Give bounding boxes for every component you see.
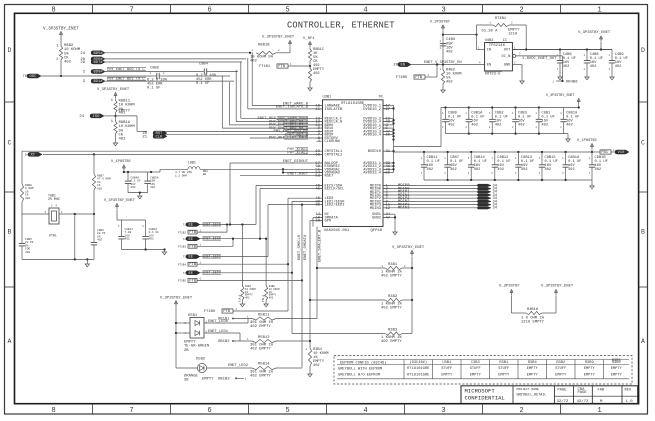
svg-text:402: 402 (150, 186, 155, 189)
capacitor C8B1A (468, 108, 470, 120)
svg-text:V_3P3STBY_ENET: V_3P3STBY_ENET (104, 199, 136, 203)
svg-text:EN: EN (487, 64, 491, 68)
svg-text:ENET_LED1: ENET_LED1 (208, 330, 229, 334)
wire (197, 245, 233, 247)
wire (200, 238, 266, 240)
wire EEDOUT riser (229, 163, 231, 225)
power arrow (288, 41, 291, 44)
svg-text:STUFF: STUFF (441, 367, 452, 371)
ground below R8B1D (308, 88, 312, 91)
svg-text:402: 402 (446, 51, 453, 55)
wire VDDANA feed from 1P8 rail (151, 171, 160, 173)
regulator U4B2 body (485, 43, 513, 71)
power arrow (510, 290, 513, 293)
svg-text:FTB: FTB (189, 245, 197, 249)
wire ENET_LED0 (204, 322, 248, 324)
resistor R8B11 (114, 101, 117, 113)
wire (197, 231, 227, 233)
svg-text:V_1P8STBY: V_1P8STBY (111, 160, 132, 164)
wire R3B2 net (310, 299, 385, 301)
IC U3B1 left pin names and numbers (315, 105, 345, 224)
svg-text:IN: IN (487, 49, 491, 53)
svg-text:FTB: FTB (189, 279, 197, 283)
wires from left components to IC U3B1 left pins (161, 106, 323, 221)
svg-text:DC: DC (379, 96, 384, 100)
wire riser EEDI to IC (267, 205, 269, 257)
svg-text:EE: EE (189, 272, 194, 276)
svg-text:402 EMPTY: 402 EMPTY (250, 375, 271, 379)
svg-text:PHY ENET BD1 TX C: PHY ENET BD1 TX C (107, 78, 145, 82)
svg-text:FAB: FAB (598, 389, 605, 393)
wire (276, 52, 290, 54)
LED D5B2 body (197, 363, 206, 372)
svg-text:402: 402 (97, 239, 102, 242)
wire riser RT4B1 to output rail (525, 25, 527, 50)
svg-text:R5B14: R5B14 (258, 363, 270, 367)
ground symbol below R8B1A (113, 143, 117, 146)
wire power pin stubs (383, 118, 394, 172)
wire (309, 61, 311, 68)
resistor R4B2 (442, 65, 444, 71)
zone column ticks top (92, 5, 94, 14)
svg-text:R3B5: R3B5 (612, 359, 621, 363)
wire (105, 61, 242, 63)
node junctions LED supply (175, 322, 177, 324)
node junction XTAL2 to series resistor (93, 153, 95, 155)
svg-text:ENET_SMDCLK: ENET_SMDCLK (298, 234, 302, 260)
wire (288, 65, 310, 67)
svg-text:402: 402 (250, 60, 258, 64)
svg-text:01.30 A: 01.30 A (481, 29, 498, 33)
svg-text:402: 402 (448, 124, 455, 128)
MDI net labels (398, 184, 498, 211)
svg-text:A: A (8, 338, 12, 345)
capacitor C8B13 (517, 152, 519, 165)
svg-text:FTB: FTB (415, 76, 423, 80)
svg-text:FT1B3: FT1B3 (178, 246, 186, 249)
svg-text:C: C (641, 140, 645, 147)
resistor R8B7 series on XTAL2 (92, 174, 95, 190)
svg-text:402 EMPTY: 402 EMPTY (381, 275, 402, 279)
capacitor C8B5A (147, 172, 149, 181)
wire LED supply vertical (175, 306, 177, 368)
svg-text:2: 2 (56, 58, 58, 62)
svg-text:CLKRUN#: CLKRUN# (325, 140, 341, 144)
svg-text:402: 402 (119, 112, 127, 116)
svg-text:BD7#: BD7# (94, 61, 104, 65)
svg-text:6: 6 (207, 407, 211, 415)
svg-text:C: C (8, 140, 12, 147)
svg-text:34: 34 (493, 207, 498, 211)
svg-text:DB1B1: DB1B1 (218, 318, 230, 322)
wire (115, 113, 117, 122)
wire ENET_LED1 (204, 332, 240, 334)
wire bottom rail (122, 249, 165, 251)
svg-text:402: 402 (25, 197, 30, 200)
svg-text:2B: 2B (184, 379, 189, 383)
svg-text:AVDD10_4: AVDD10_4 (363, 134, 381, 138)
title block outline (461, 386, 638, 404)
svg-text:402: 402 (521, 168, 528, 172)
svg-text:C3B3: C3B3 (471, 361, 480, 365)
svg-text:STUFF: STUFF (470, 367, 481, 371)
svg-text:PHY_REF_CLK1_PADS: PHY_REF_CLK1_PADS (269, 137, 309, 141)
svg-text:(93C46#): (93C46#) (409, 360, 427, 365)
resistor R8B1B (256, 51, 276, 54)
svg-text:21: 21 (142, 135, 147, 139)
wire bottom rail of 1P8 caps (128, 192, 148, 194)
wire XTAL2 right vertical to cap (93, 214, 95, 228)
svg-text:402: 402 (545, 168, 552, 172)
node junctions on OUT rail (525, 48, 527, 50)
wire (60, 60, 62, 76)
node junction (309, 65, 311, 67)
svg-text:ENET_EEDOUT: ENET_EEDOUT (283, 160, 309, 164)
svg-text:402 EMPTY: 402 EMPTY (250, 348, 271, 352)
power arrow (577, 99, 580, 102)
wire enable net (411, 64, 485, 66)
svg-text:402: 402 (313, 364, 320, 368)
ground bypass row1 (567, 134, 569, 139)
capacitor C8B16 (565, 152, 567, 165)
wire (233, 318, 252, 320)
svg-text:ENET_SMDATA: ENET_SMDATA (304, 234, 308, 260)
ground (139, 193, 141, 196)
wire (289, 47, 291, 53)
svg-text:EE: EE (189, 224, 194, 228)
title block dividers (512, 386, 514, 404)
svg-text:1210 EMPTY: 1210 EMPTY (521, 320, 545, 324)
capacitor C8B12 (494, 152, 496, 165)
svg-text:EECLK/SCL: EECLK/SCL (325, 187, 345, 192)
bypass row1 junction dots (444, 106, 540, 108)
svg-text:CONFIDENTIAL: CONFIDENTIAL (465, 394, 505, 401)
svg-text:L8B1: L8B1 (188, 161, 196, 165)
svg-text:FT1B4: FT1B4 (178, 263, 186, 266)
svg-text:38: 38 (315, 204, 320, 208)
svg-text:FT4B0: FT4B0 (396, 76, 407, 80)
svg-text:B: B (641, 229, 645, 236)
svg-text:402: 402 (471, 124, 478, 128)
svg-text:B: B (8, 229, 12, 236)
capacitor C8B14 (470, 152, 472, 165)
svg-text:R8B1B: R8B1B (258, 44, 270, 48)
wire BD2 bus horizontal (61, 75, 152, 77)
capacitor C8B6 (93, 228, 95, 243)
svg-text:1: 1 (597, 7, 601, 15)
wire PHY_XTAL2 long horizontal (43, 153, 323, 155)
svg-text:PAGE: PAGE (558, 389, 568, 393)
svg-text:EMPTY: EMPTY (202, 378, 214, 382)
wire (309, 366, 311, 374)
wire (116, 210, 118, 221)
svg-text:12: 12 (386, 207, 391, 211)
svg-text:15: 15 (315, 108, 320, 112)
capacitor C8B4A (127, 172, 129, 181)
wire (276, 367, 302, 369)
svg-text:BD1#: BD1# (94, 80, 104, 84)
svg-text:24: 24 (80, 52, 85, 56)
wire R4B16 right leg (555, 296, 557, 314)
wire crystal left lead (22, 213, 49, 215)
ferrite link FB8B1 and flag (592, 151, 600, 153)
svg-text:402: 402 (497, 168, 504, 172)
svg-text:DB1B2: DB1B2 (218, 340, 230, 344)
svg-text:MDIN3: MDIN3 (398, 207, 410, 211)
ground R4B2 (441, 90, 445, 93)
svg-text:DC_N: DC_N (502, 55, 511, 59)
capacitor C4B8 (586, 50, 588, 61)
wire vertical ENET net x288 (287, 198, 289, 311)
ground (559, 74, 561, 77)
node junction (74, 258, 76, 260)
svg-text:402: 402 (245, 297, 250, 300)
svg-text:R3B9: R3B9 (585, 361, 594, 365)
svg-text:8: 8 (51, 407, 55, 415)
capacitor C8B17 (121, 220, 123, 226)
LED D5B1 body (190, 318, 204, 339)
svg-text:V_3P3STBY_ENET: V_3P3STBY_ENET (392, 246, 425, 250)
ground (164, 250, 166, 253)
ground bypass row2 (591, 180, 593, 186)
wire box1 tie (226, 225, 228, 233)
svg-text:GND: GND (504, 64, 511, 68)
open-drain pin circle DC_N (513, 54, 516, 57)
svg-text:FT1B2: FT1B2 (178, 231, 186, 234)
svg-text:51B_A: 51B_A (262, 294, 265, 302)
svg-text:FT1B1: FT1B1 (259, 65, 271, 69)
wire bypass row2 top rail (394, 151, 593, 153)
svg-text:BVDD10: BVDD10 (368, 150, 381, 154)
svg-text:402 EMPTY: 402 EMPTY (250, 325, 271, 329)
svg-text:V_3P3STBY: V_3P3STBY (430, 21, 451, 25)
svg-text:28: 28 (25, 154, 29, 157)
svg-text:ENET_SMALERT_B: ENET_SMALERT_B (319, 229, 323, 262)
ground (586, 74, 588, 77)
power arrow V_3P3STBY (441, 25, 444, 28)
svg-text:EE: EE (189, 256, 194, 260)
svg-text:63: 63 (315, 153, 320, 157)
wire (105, 52, 250, 54)
power arrow (599, 36, 602, 39)
wire bypass row2 bottom rail (424, 179, 592, 181)
svg-text:BD5#: BD5# (94, 52, 104, 56)
svg-text:60: 60 (386, 134, 391, 138)
wire (176, 367, 197, 369)
wire (265, 300, 267, 304)
svg-text:402: 402 (474, 168, 481, 172)
node junction (442, 33, 444, 35)
svg-text:QFP48: QFP48 (371, 229, 383, 233)
wire pullup rail x412 (411, 257, 413, 334)
wire (200, 256, 268, 258)
svg-text:V10: V10 (618, 151, 626, 155)
wire (115, 99, 117, 101)
wire (105, 71, 200, 73)
svg-text:ENET_EESK: ENET_EESK (203, 238, 222, 242)
node junction crystal ground leg (74, 213, 76, 215)
svg-text:EMPTY: EMPTY (527, 367, 539, 371)
capacitor C4B6 (559, 50, 561, 61)
ground (240, 304, 244, 307)
svg-text:4: 4 (363, 407, 367, 415)
wire from R8B11 node to pair flags (116, 115, 138, 117)
capacitor C8B7 (447, 152, 449, 165)
wire (442, 31, 444, 65)
wire (241, 300, 243, 304)
svg-text:GND2: GND2 (372, 216, 381, 220)
svg-text:402: 402 (125, 238, 130, 241)
svg-text:XT: XT (31, 154, 36, 158)
wire bypass row1 top rail (441, 107, 579, 109)
wire risers from upper-left bus to IC pin rows (222, 52, 252, 128)
svg-text:FTB: FTB (189, 231, 197, 235)
svg-text:1210: 1210 (508, 33, 518, 37)
wire to LED D5B1 anodes (176, 322, 190, 324)
resistor R8B2 (59, 46, 62, 60)
wire riser EECLK to IC (259, 189, 261, 239)
svg-text:ENET_EECS: ENET_EECS (203, 223, 221, 227)
node junction below R8B11 (114, 115, 116, 117)
wire OUT rail (512, 49, 612, 51)
wire (276, 340, 310, 342)
node junction at R8B2 bottom (60, 75, 62, 77)
svg-text:A: A (641, 338, 645, 345)
svg-text:2B: 2B (203, 173, 207, 176)
svg-text:2: 2 (519, 7, 523, 15)
svg-text:3: 3 (441, 7, 445, 15)
svg-text:ENET_EEDI: ENET_EEDI (203, 255, 221, 259)
wire IN stub (477, 49, 485, 51)
svg-text:PHY ENET BD0 TX C: PHY ENET BD0 TX C (107, 68, 145, 72)
svg-text:EMPTY: EMPTY (527, 373, 539, 377)
svg-text:FTB: FTB (223, 310, 231, 314)
capacitor C8B5 (21, 230, 23, 244)
wire pulldown stack 2 vertical (265, 239, 267, 286)
wire vertical SMDATA stub x313 (312, 217, 314, 226)
wire (309, 48, 311, 50)
node junction (287, 263, 289, 265)
svg-text:XTAL: XTAL (49, 234, 57, 238)
svg-text:29: 29 (80, 61, 85, 65)
wire crystal right lead (59, 213, 94, 215)
svg-text:CRYSTAL2: CRYSTAL2 (325, 153, 343, 157)
capacitor C8B9 (445, 108, 447, 120)
wire (562, 56, 564, 81)
wire (276, 318, 317, 320)
op IC U3B1 RTL8019AS body (323, 100, 384, 227)
wire (104, 115, 116, 117)
svg-text:V_3P3STBY_ENET: V_3P3STBY_ENET (262, 36, 295, 40)
wire riser EECS to IC (255, 185, 257, 224)
wire (200, 272, 292, 274)
svg-text:BD0#: BD0# (94, 71, 104, 75)
wire to RT4B1 branch (443, 34, 477, 36)
svg-text:STUFF: STUFF (498, 367, 509, 371)
wire (115, 134, 117, 144)
svg-text:402: 402 (64, 61, 72, 65)
capacitor C8B1 (538, 108, 540, 120)
svg-text:DR4B6: DR4B6 (566, 80, 578, 84)
wire (41, 75, 61, 77)
wire vertical ENET net x302 (301, 205, 303, 368)
resistor R8B1D (EMPTY) (308, 68, 311, 82)
svg-text:402: 402 (149, 238, 154, 241)
IC U3B1 right pin stubs (383, 106, 389, 218)
svg-text:V_1P8STBC: V_1P8STBC (577, 139, 598, 143)
wire (200, 168, 283, 170)
wire GND pins of IC (383, 213, 395, 215)
capacitor C8B1B (591, 152, 593, 165)
svg-text:EEPROM CONFIG (93C46): EEPROM CONFIG (93C46) (340, 360, 386, 365)
svg-text:V_3P3STBY_ENET: V_3P3STBY_ENET (97, 88, 130, 92)
svg-text:402: 402 (131, 186, 136, 189)
svg-text:V_3P3STBY_ENET: V_3P3STBY_ENET (546, 94, 575, 98)
wire bottom rail crystal caps (22, 258, 94, 260)
svg-text:EMPTY: EMPTY (470, 373, 482, 377)
svg-text:GREYBULL W/O EEPROM: GREYBULL W/O EEPROM (338, 373, 380, 378)
wire XTAL1 left vertical (21, 151, 23, 184)
svg-text:V_3P3STBY_ENET: V_3P3STBY_ENET (160, 296, 193, 300)
EEPROM configuration table dashed border (334, 356, 632, 385)
wire R3B3 net (292, 333, 385, 335)
svg-text:C8B4: C8B4 (199, 63, 209, 67)
wire box2 tie (232, 239, 234, 247)
resistor R8B1A (114, 122, 117, 134)
svg-text:8: 8 (51, 7, 55, 15)
svg-text:EMPTY: EMPTY (611, 367, 623, 371)
svg-text:402: 402 (568, 168, 575, 172)
svg-text:U3B1: U3B1 (442, 361, 452, 365)
wire (123, 171, 125, 172)
svg-text:FTB: FTB (278, 65, 286, 69)
resistor R8B8 on XTAL1 left (20, 184, 23, 202)
capacitor C4B3 plates (440, 43, 446, 45)
wire (21, 202, 23, 230)
svg-text:1.0: 1.0 (626, 400, 634, 404)
svg-text:V_3P3STBY: V_3P3STBY (499, 285, 520, 289)
node junction LED2 line (301, 203, 303, 205)
ground (264, 304, 268, 307)
svg-text:59: 59 (386, 172, 391, 176)
capacitor C8B2 (491, 108, 493, 120)
svg-text:V_3P3STBY_ENET: V_3P3STBY_ENET (43, 26, 79, 31)
wire (309, 82, 311, 88)
wire (105, 58, 246, 60)
wire feed to bypass row1 (394, 146, 442, 148)
svg-text:EMPTY: EMPTY (441, 373, 453, 377)
svg-text:PHY_XTAL2: PHY_XTAL2 (287, 151, 308, 155)
svg-text:EE: EE (189, 238, 194, 242)
svg-text:CONTROLLER, ETHERNET: CONTROLLER, ETHERNET (287, 21, 395, 31)
wire vertical ENET net x292 (291, 201, 293, 333)
zone row ticks right (639, 101, 648, 103)
svg-text:402: 402 (595, 168, 602, 172)
svg-text:EMPTY: EMPTY (555, 373, 567, 377)
svg-text:ISO: ISO (93, 115, 101, 119)
svg-text:ENET_EEDO: ENET_EEDO (203, 272, 221, 276)
thermistor RT4B1 (477, 24, 494, 26)
svg-text:D: D (641, 47, 645, 54)
wire R4B16 left leg (511, 296, 513, 314)
capacitor C4B9 (611, 50, 613, 61)
wire DVDD stub pins to rail riser (383, 104, 394, 106)
svg-text:402: 402 (313, 72, 320, 76)
svg-text:REV: REV (625, 389, 632, 393)
svg-text:CLK: CLK (156, 135, 164, 139)
svg-text:47: 47 (386, 216, 391, 220)
wire crystal ground leg (74, 214, 76, 259)
